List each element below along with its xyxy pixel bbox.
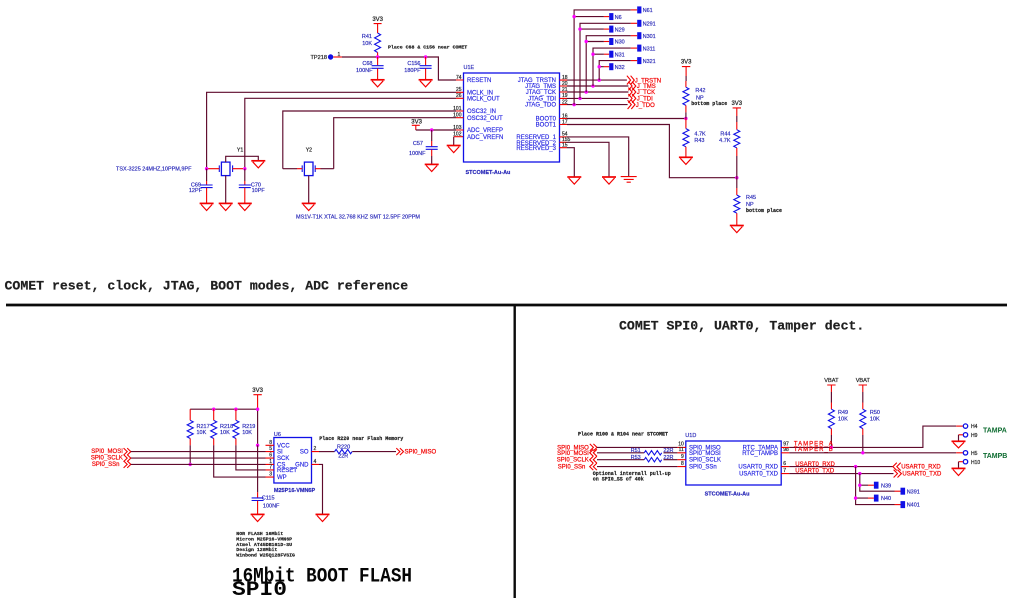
resistor R49 10K (828, 403, 848, 448)
svg-text:SPI0_SCLK: SPI0_SCLK (91, 456, 123, 462)
ground (R45) (730, 226, 744, 233)
svg-text:N6: N6 (615, 15, 622, 21)
U1E left pin stubs (456, 80, 464, 130)
wire SPI0_SCLK to R53 (597, 459, 644, 461)
U1D right pin stubs (781, 447, 789, 473)
svg-text:RESET: RESET (277, 468, 297, 474)
svg-text:102: 102 (453, 132, 462, 138)
svg-text:R45: R45 (746, 195, 756, 201)
net label SPI0_SCLK (comet) (557, 456, 597, 464)
svg-text:RESETN: RESETN (467, 78, 491, 84)
off-page connector J_TMS (628, 82, 655, 91)
crystal Y1 (208, 148, 258, 204)
connector H5 (963, 451, 977, 457)
connector N401 (895, 501, 920, 509)
svg-text:H4: H4 (971, 424, 978, 430)
junction TDO branch (572, 103, 575, 106)
svg-text:M25P16-VMN6P: M25P16-VMN6P (274, 488, 316, 494)
svg-text:VCC: VCC (277, 443, 290, 449)
resistor R51 22R (631, 448, 674, 455)
svg-text:3V3: 3V3 (731, 101, 742, 107)
junction N31 (591, 53, 594, 56)
junction R217/SSn (189, 463, 192, 466)
svg-text:8: 8 (681, 461, 684, 467)
junction rail R219 (234, 408, 237, 411)
svg-text:C115: C115 (262, 495, 275, 501)
svg-text:R217: R217 (197, 424, 210, 430)
svg-text:OSC32_IN: OSC32_IN (467, 109, 496, 115)
svg-text:OSC32_OUT: OSC32_OUT (467, 116, 503, 122)
junction N30 (585, 40, 588, 43)
off-page connector USART0_RXD (893, 463, 942, 471)
svg-text:R43: R43 (694, 138, 704, 144)
svg-text:SO: SO (300, 450, 309, 456)
junction Y1 right (243, 167, 246, 170)
ground (H10) (952, 468, 966, 475)
svg-text:SPI0_MOSI: SPI0_MOSI (557, 451, 589, 457)
ground (RESERVED_2) (602, 177, 616, 184)
svg-text:74: 74 (456, 75, 462, 81)
svg-text:C156: C156 (407, 61, 420, 67)
note: place R220 near flash (319, 436, 403, 442)
svg-text:SPI0_SSn: SPI0_SSn (689, 465, 717, 471)
svg-text:N391: N391 (907, 489, 920, 495)
svg-text:J_TDO: J_TDO (636, 103, 655, 109)
svg-text:SPI0_MOSI: SPI0_MOSI (689, 451, 721, 457)
wire TXD to N39/N391 (860, 474, 895, 492)
off-page connector J_TDI (628, 94, 653, 103)
svg-text:Y1: Y1 (237, 148, 243, 154)
off-page connector J_TRSTN (627, 76, 661, 85)
svg-text:SPI0_SSn: SPI0_SSn (558, 464, 586, 470)
wire OSC32_OUT net (334, 118, 456, 169)
wire R51 to pin 11 (664, 452, 678, 454)
junction RXD branch (854, 465, 857, 468)
resistor R45 NP (734, 178, 782, 226)
ground (H9) (952, 441, 966, 448)
svg-text:WP: WP (277, 475, 287, 481)
net label SPI0_SCLK (flash) (91, 455, 131, 462)
note: NOR FLASH alternatives (236, 531, 295, 559)
ground (R43) (679, 157, 693, 164)
power 3V3 (ADC_VREFP) (411, 120, 422, 130)
U1E right pin names (516, 78, 556, 152)
svg-text:JTAG_TCK: JTAG_TCK (526, 90, 556, 96)
svg-text:N311: N311 (643, 46, 656, 52)
wire RESERVED_3 (567, 148, 574, 177)
svg-text:RESERVED_3: RESERVED_3 (516, 146, 556, 152)
wire JTAG_TRSTN (567, 79, 627, 81)
ground (U6 GND) (316, 514, 330, 521)
connector N32 (604, 63, 625, 71)
svg-text:10PF: 10PF (252, 188, 266, 194)
svg-text:N291: N291 (643, 22, 656, 28)
wire RESERVED_2 (567, 142, 609, 177)
ground (C69) (200, 203, 214, 210)
svg-text:26: 26 (456, 93, 462, 99)
wire SPI0_MOSI to SI (131, 451, 266, 453)
net label SPI0_SSn (comet) (558, 463, 597, 470)
wire SPI0_MISO (comet) (597, 446, 677, 448)
svg-text:15: 15 (562, 143, 568, 149)
capacitor C70 (239, 169, 266, 204)
svg-text:COMET SPI0, UART0, Tamper dect: COMET SPI0, UART0, Tamper dect. (619, 319, 864, 334)
svg-text:N61: N61 (643, 8, 653, 14)
svg-text:Design 128Mbit: Design 128Mbit (236, 547, 277, 553)
svg-text:C68: C68 (362, 61, 372, 67)
resistor R41 (362, 33, 381, 57)
svg-text:3: 3 (269, 472, 272, 478)
svg-text:10K: 10K (362, 41, 372, 47)
svg-text:Atmel AT45DB161D-SU: Atmel AT45DB161D-SU (236, 542, 292, 548)
wire MCLK_OUT net (245, 98, 456, 168)
svg-text:JTAG_TDO: JTAG_TDO (525, 103, 556, 109)
svg-text:19: 19 (562, 93, 568, 99)
svg-text:3V3: 3V3 (252, 388, 263, 394)
svg-text:100NF: 100NF (356, 68, 373, 74)
svg-text:N30: N30 (615, 40, 625, 46)
resistor R218 10K (211, 409, 266, 477)
U1E right pin stubs (560, 80, 568, 148)
ground (C156) (419, 80, 433, 87)
svg-text:Micron M25P16-VMN6P: Micron M25P16-VMN6P (236, 536, 292, 542)
section title: COMET reset, clock, JTAG, BOOT modes, ADC reference (5, 279, 409, 294)
svg-text:SCK: SCK (277, 456, 289, 462)
net label TAMPB (983, 453, 1007, 460)
section title: COMET SPI0, UART0, Tamper dect. (619, 319, 864, 334)
junction at R41/C68 (376, 55, 379, 58)
net label SPI0_MISO (comet) (557, 444, 597, 452)
resistor R53 22R (631, 455, 674, 462)
svg-text:6: 6 (269, 453, 272, 459)
wire TAMPER_A to H4 (789, 426, 963, 447)
svg-text:R49: R49 (838, 410, 848, 416)
svg-text:N40: N40 (881, 496, 891, 502)
vertical divider line (514, 306, 516, 598)
svg-text:SI: SI (277, 450, 283, 456)
wire TAMPER_B to H5 (789, 452, 963, 454)
svg-text:N31: N31 (615, 52, 625, 58)
U6 right pin stubs (312, 452, 320, 465)
svg-text:3V3: 3V3 (372, 17, 383, 23)
capacitor C57 (409, 130, 438, 164)
svg-text:10K: 10K (220, 430, 230, 436)
capacitor C68 (356, 57, 384, 80)
svg-text:103: 103 (453, 125, 462, 131)
svg-text:R53: R53 (631, 455, 641, 461)
connector N321 (631, 57, 656, 65)
svg-text:R218: R218 (220, 424, 233, 430)
connector N29 (604, 26, 625, 34)
svg-text:21: 21 (562, 87, 568, 93)
svg-text:N29: N29 (615, 27, 625, 33)
junction TMS branch (591, 84, 594, 87)
svg-text:H5: H5 (971, 451, 978, 457)
connector N39 (868, 482, 891, 490)
svg-text:J_TDI: J_TDI (637, 97, 653, 103)
svg-text:ADC_VREFN: ADC_VREFN (467, 135, 503, 141)
svg-text:100: 100 (453, 113, 462, 119)
resistor R50 10K (860, 403, 880, 453)
connector N61 (631, 6, 653, 14)
U1D pin numbers (678, 442, 789, 474)
power 3V3 (R44) (731, 101, 742, 122)
off-page connector USART0_TXD (894, 470, 942, 478)
resistor R43 4.7K (683, 119, 706, 158)
connector N40 (868, 495, 891, 503)
svg-text:Y2: Y2 (306, 148, 312, 154)
capacitor C69 (189, 169, 213, 204)
wire SO to R220 (319, 451, 335, 453)
test point TP218 (311, 52, 342, 61)
connector N301 (631, 32, 656, 40)
resistor R44 4.7K (719, 122, 740, 178)
svg-text:GND: GND (295, 463, 309, 469)
wire pull-up rail (190, 409, 257, 445)
capacitor C156 (404, 57, 431, 80)
svg-text:10K: 10K (197, 430, 207, 436)
ground (Y1 bottom) (219, 203, 233, 210)
junction rail 3V3 (256, 408, 259, 411)
resistor R42 NP (683, 81, 727, 119)
wire TRSTN to N32/N321 (599, 61, 631, 81)
U1D pin names (689, 445, 779, 477)
svg-text:Place R220 near Flash Memory: Place R220 near Flash Memory (319, 436, 403, 442)
svg-text:Place C68 & C156 near COMET: Place C68 & C156 near COMET (388, 45, 467, 51)
svg-text:7: 7 (269, 465, 272, 471)
svg-text:SPI0: SPI0 (232, 579, 287, 602)
earth ground (RESERVED_1) (621, 177, 637, 183)
U6 pin numbers (269, 440, 316, 478)
svg-text:NP: NP (746, 202, 754, 208)
svg-text:22: 22 (562, 99, 568, 105)
power 3V3 (flash pull-ups) (252, 388, 263, 409)
svg-text:TAMPA: TAMPA (983, 428, 1007, 435)
net label TAMPER_A (794, 442, 834, 448)
ground (C57) (425, 164, 439, 171)
svg-text:4.7K: 4.7K (694, 132, 706, 138)
wire BOOT1 (567, 125, 737, 178)
note: place C68 and C156 near COMET (388, 45, 467, 51)
svg-text:TP218: TP218 (311, 55, 327, 61)
svg-text:100NF: 100NF (263, 504, 280, 510)
svg-text:12PF: 12PF (189, 188, 203, 194)
wire ADC_VREFN to ground (454, 137, 464, 146)
svg-text:USART0_RXD: USART0_RXD (901, 465, 941, 471)
connector H9 (959, 433, 978, 442)
ground (Y2) (302, 203, 316, 210)
power VBAT (R50) (856, 378, 871, 403)
svg-text:R44: R44 (720, 132, 730, 138)
capacitor C115 (252, 445, 280, 514)
connector N311 (631, 45, 656, 53)
junction N40 branch (854, 496, 857, 499)
svg-text:100NF: 100NF (409, 151, 426, 157)
junction TRSTN branch (598, 78, 601, 81)
wire USART0_TXD (789, 473, 893, 475)
wire USART0_RXD (789, 466, 893, 468)
svg-text:MCLK_OUT: MCLK_OUT (467, 96, 500, 102)
power 3V3 (R41 top) (372, 17, 383, 33)
note: place R100 R104 near STCOMET (578, 432, 668, 438)
crystal Y2 (283, 148, 334, 204)
svg-text:5: 5 (269, 446, 272, 452)
U1E left pin numbers (453, 75, 462, 138)
svg-text:NOR FLASH 16Mbit: NOR FLASH 16Mbit (236, 531, 283, 537)
IC U1D STCOMET (685, 433, 781, 498)
wire JTAG_TCK (567, 91, 628, 93)
connector N30 (604, 38, 625, 46)
svg-text:C57: C57 (413, 141, 423, 147)
off-page connector J_TDO (628, 100, 656, 109)
net label TAMPER_B (794, 447, 834, 453)
svg-text:10K: 10K (838, 417, 848, 423)
value text MS1V-T1K (296, 215, 420, 221)
IC U1E STCOMET (464, 65, 560, 176)
svg-text:H9: H9 (971, 433, 978, 439)
junction BOOT0/R42/R43 (684, 117, 687, 120)
U6 pin names (277, 443, 309, 481)
svg-text:Place R100 & R104 near STCOMET: Place R100 & R104 near STCOMET (578, 432, 668, 438)
svg-text:22R: 22R (338, 454, 348, 460)
horizontal separator line (6, 304, 1007, 307)
svg-text:4.7K: 4.7K (719, 138, 731, 144)
junction Y1 left (205, 167, 208, 170)
net label USART0_TXD (pin side) (795, 468, 835, 474)
wire JTAG_TMS (567, 85, 628, 87)
junction VCC rail (256, 444, 259, 447)
wire R53 to pin 9 (664, 459, 678, 461)
svg-text:STCOMET-Au-Au: STCOMET-Au-Au (466, 170, 511, 176)
note: optional pull-up (593, 471, 671, 483)
net label SPI0_MOSI (comet) (557, 449, 597, 457)
svg-text:SPI0_MOSI: SPI0_MOSI (91, 449, 123, 455)
svg-text:SPI0_SSn: SPI0_SSn (92, 462, 120, 468)
svg-text:6: 6 (783, 461, 786, 467)
svg-text:U1E: U1E (464, 65, 475, 71)
power 3V3 (R42) (681, 59, 692, 81)
wire SPI0_SSn (comet) (597, 466, 677, 468)
svg-text:180PF: 180PF (404, 68, 421, 74)
wire ADC_VREFP net (416, 129, 456, 131)
IC U6 flash (274, 432, 316, 494)
svg-text:7: 7 (783, 468, 786, 474)
svg-text:COMET reset, clock, JTAG, BOOT: COMET reset, clock, JTAG, BOOT modes, AD… (5, 279, 409, 294)
svg-text:bottom place: bottom place (691, 101, 727, 107)
svg-text:ADC_VREFP: ADC_VREFP (467, 128, 503, 134)
junction N29 (578, 27, 581, 30)
junction at C156 (424, 55, 427, 58)
svg-text:bottom place: bottom place (746, 208, 782, 214)
svg-text:SPI0_SCLK: SPI0_SCLK (557, 458, 589, 464)
net label SPI0_SSn (flash) (92, 461, 131, 468)
junction TXD branch (858, 472, 861, 475)
svg-text:N301: N301 (643, 34, 656, 40)
net label TAMPA (983, 428, 1007, 435)
junction C57 (430, 128, 433, 131)
svg-text:17: 17 (562, 119, 568, 125)
wire RESERVED_1 (567, 137, 629, 176)
ground (ADC_VREFN) (447, 146, 461, 153)
U1E left pin names (467, 78, 503, 141)
ground (RESERVED_3) (567, 177, 581, 184)
svg-text:9: 9 (681, 454, 684, 460)
svg-text:N39: N39 (881, 483, 891, 489)
svg-text:10K: 10K (242, 430, 252, 436)
resistor R219 10K (233, 409, 266, 470)
svg-text:MS1V-T1K XTAL 32.768 KHZ SMT 1: MS1V-T1K XTAL 32.768 KHZ SMT 12.5PF 20PP… (296, 215, 420, 221)
U1E right pin numbers (562, 75, 571, 149)
ground (Y1 case) (251, 161, 265, 168)
junction N32 (598, 65, 601, 68)
wire JTAG_TDI (567, 97, 628, 99)
wire MCLK_IN net (207, 92, 456, 168)
junction rail R218 (212, 408, 215, 411)
ground (C115) (251, 514, 265, 521)
svg-text:R219: R219 (242, 424, 255, 430)
wire SPI0_MOSI to R51 (597, 452, 644, 454)
svg-text:N401: N401 (907, 503, 920, 509)
ground (C70) (238, 203, 252, 210)
U1D left pin stubs (677, 447, 685, 466)
wire TDI to N29/N291 (580, 23, 631, 98)
svg-text:USART0_TXD: USART0_TXD (902, 472, 942, 478)
svg-text:STCOMET-Au-Au: STCOMET-Au-Au (705, 491, 750, 497)
wire SPI0_SCLK to SCK (131, 457, 266, 459)
svg-text:TSX-3225 24MHZ,10PPM,9PF: TSX-3225 24MHZ,10PPM,9PF (116, 167, 192, 173)
resistor R217 10K (187, 409, 209, 464)
svg-text:R42: R42 (695, 88, 705, 94)
resistor R220 22R (335, 444, 352, 459)
connector H10 (959, 460, 981, 469)
wire GND pin to ground (319, 464, 323, 514)
junction R49/TAMPER_A (830, 446, 833, 449)
svg-text:VBAT: VBAT (824, 378, 839, 384)
wire RXD to N40/N401 (856, 467, 895, 505)
wire OSC32_IN net (283, 111, 456, 169)
net label SPI0_MISO (flash) (396, 448, 436, 455)
big title: 16Mbit BOOT FLASH SPI0 (232, 566, 412, 603)
svg-text:VBAT: VBAT (856, 378, 871, 384)
svg-text:8: 8 (269, 440, 272, 446)
svg-text:RTC_TAMPB: RTC_TAMPB (742, 451, 778, 457)
junction TCK branch (585, 90, 588, 93)
svg-text:USART0_RXD: USART0_RXD (738, 465, 778, 471)
svg-text:SPI0_MISO: SPI0_MISO (405, 450, 437, 456)
svg-text:R51: R51 (631, 448, 641, 454)
wire SPI0_SSn to CS (131, 463, 266, 465)
svg-text:11: 11 (679, 447, 684, 453)
wire TDO to N6/N61 (574, 10, 631, 105)
svg-text:SPI0_SCLK: SPI0_SCLK (689, 458, 721, 464)
svg-text:N321: N321 (643, 59, 656, 65)
svg-text:TAMPER_B: TAMPER_B (794, 447, 834, 453)
wire JTAG_TDO (567, 104, 628, 106)
net label USART0_RXD (pin side) (795, 462, 835, 468)
wire TCK to N30/N301 (586, 36, 631, 92)
off-page connector J_TCK (628, 88, 655, 97)
svg-text:R50: R50 (870, 410, 880, 416)
svg-text:J_TCK: J_TCK (637, 90, 655, 96)
svg-text:101: 101 (453, 106, 462, 112)
svg-text:N32: N32 (615, 65, 625, 71)
value text TSX-3225 (116, 167, 192, 173)
svg-text:R220: R220 (337, 444, 350, 450)
wire BOOT0 (567, 118, 686, 120)
svg-text:JTAG_TDI: JTAG_TDI (528, 96, 556, 102)
ground (C68) (371, 80, 385, 87)
svg-text:on SPI0_SS of 40k: on SPI0_SS of 40k (593, 477, 644, 483)
